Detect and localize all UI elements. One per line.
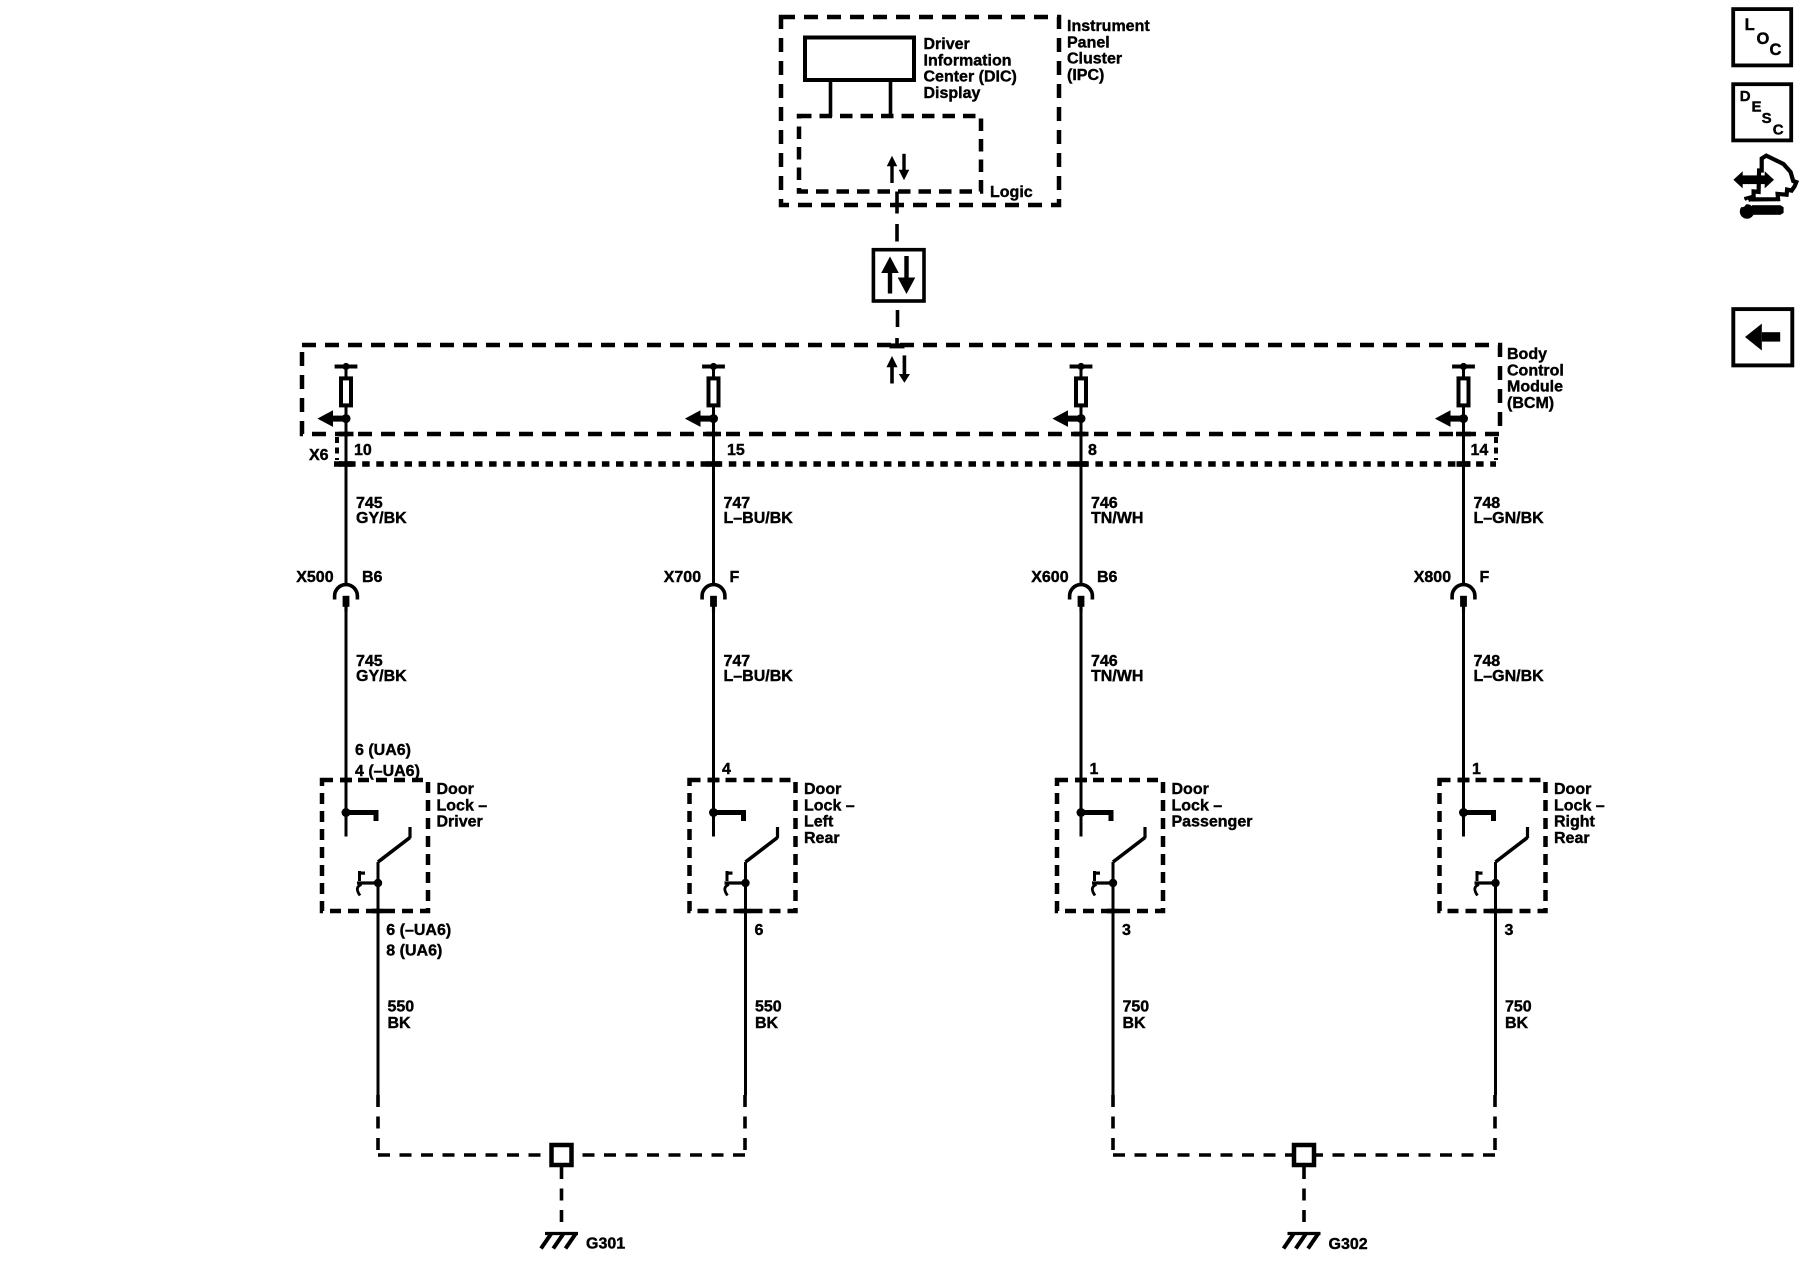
svg-text:Door: Door: [804, 781, 841, 798]
svg-text:E: E: [1752, 99, 1762, 116]
svg-text:Driver: Driver: [437, 814, 483, 831]
svg-text:Driver: Driver: [924, 36, 970, 53]
svg-text:Door: Door: [1172, 781, 1209, 798]
svg-text:G301: G301: [586, 1236, 625, 1253]
svg-text:F: F: [730, 569, 740, 586]
svg-text:Rear: Rear: [804, 830, 840, 847]
svg-text:Body: Body: [1507, 346, 1547, 363]
svg-text:Left: Left: [804, 814, 834, 831]
svg-text:F: F: [1480, 569, 1490, 586]
svg-text:8 (UA6): 8 (UA6): [386, 943, 442, 960]
svg-text:C: C: [1773, 122, 1784, 139]
svg-text:C: C: [1770, 41, 1782, 59]
svg-text:Lock –: Lock –: [1172, 797, 1223, 814]
svg-text:BK: BK: [1505, 1015, 1529, 1032]
svg-text:GY/BK: GY/BK: [356, 510, 407, 527]
svg-text:Lock –: Lock –: [1554, 797, 1605, 814]
svg-text:3: 3: [1122, 922, 1131, 939]
svg-text:Passenger: Passenger: [1172, 814, 1253, 831]
svg-text:TN/WH: TN/WH: [1091, 668, 1143, 685]
svg-text:X6: X6: [309, 447, 329, 464]
svg-text:S: S: [1762, 110, 1772, 127]
svg-text:8: 8: [1088, 442, 1097, 459]
svg-text:3: 3: [1505, 922, 1514, 939]
svg-text:Door: Door: [437, 781, 474, 798]
svg-text:X500: X500: [296, 569, 333, 586]
svg-text:Information: Information: [924, 52, 1012, 69]
svg-text:550: 550: [388, 999, 415, 1016]
svg-text:O: O: [1757, 30, 1770, 48]
svg-text:750: 750: [1505, 999, 1532, 1016]
svg-text:X700: X700: [664, 569, 701, 586]
svg-text:Center (DIC): Center (DIC): [924, 69, 1017, 86]
svg-text:G302: G302: [1329, 1236, 1368, 1253]
svg-text:750: 750: [1123, 999, 1150, 1016]
svg-text:L–BU/BK: L–BU/BK: [724, 510, 794, 527]
svg-text:Display: Display: [924, 85, 981, 102]
svg-text:6: 6: [755, 922, 764, 939]
svg-text:L: L: [1745, 16, 1755, 34]
svg-text:TN/WH: TN/WH: [1091, 510, 1143, 527]
svg-text:B6: B6: [362, 569, 383, 586]
svg-text:L–GN/BK: L–GN/BK: [1474, 510, 1545, 527]
svg-text:15: 15: [727, 442, 745, 459]
svg-text:Panel: Panel: [1067, 34, 1110, 51]
svg-text:(IPC): (IPC): [1067, 67, 1104, 84]
svg-text:550: 550: [755, 999, 782, 1016]
svg-text:B6: B6: [1097, 569, 1118, 586]
svg-text:6 (UA6): 6 (UA6): [355, 742, 411, 759]
svg-text:X800: X800: [1414, 569, 1451, 586]
svg-text:4 (–UA6): 4 (–UA6): [355, 763, 420, 780]
svg-text:L–BU/BK: L–BU/BK: [724, 668, 794, 685]
svg-text:Lock –: Lock –: [804, 797, 855, 814]
svg-text:BK: BK: [388, 1015, 412, 1032]
svg-text:GY/BK: GY/BK: [356, 668, 407, 685]
svg-text:6 (–UA6): 6 (–UA6): [386, 922, 451, 939]
svg-text:D: D: [1740, 88, 1751, 105]
svg-text:Logic: Logic: [990, 184, 1033, 201]
svg-text:Right: Right: [1554, 814, 1596, 831]
svg-text:1: 1: [1472, 761, 1481, 778]
svg-text:14: 14: [1471, 442, 1489, 459]
svg-text:Cluster: Cluster: [1067, 51, 1122, 68]
svg-text:L–GN/BK: L–GN/BK: [1474, 668, 1545, 685]
svg-text:10: 10: [354, 442, 372, 459]
svg-text:Door: Door: [1554, 781, 1591, 798]
svg-text:Rear: Rear: [1554, 830, 1590, 847]
svg-text:1: 1: [1090, 761, 1099, 778]
svg-text:Lock –: Lock –: [437, 797, 488, 814]
svg-text:BK: BK: [755, 1015, 779, 1032]
svg-text:(BCM): (BCM): [1507, 395, 1554, 412]
svg-text:X600: X600: [1031, 569, 1068, 586]
svg-text:4: 4: [722, 761, 731, 778]
svg-text:Module: Module: [1507, 379, 1563, 396]
svg-text:Control: Control: [1507, 362, 1564, 379]
svg-text:BK: BK: [1123, 1015, 1147, 1032]
svg-text:Instrument: Instrument: [1067, 18, 1150, 35]
